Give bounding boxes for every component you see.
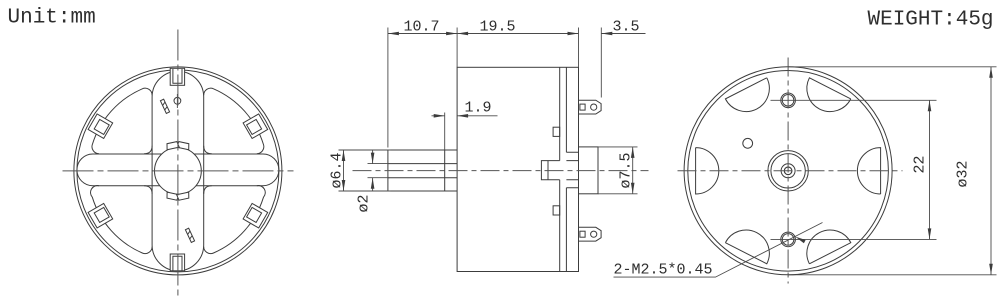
svg-text:10.7: 10.7 bbox=[404, 19, 440, 36]
rear bearing boss cylinder bbox=[579, 147, 599, 194]
clip tab 30 deg bbox=[243, 114, 268, 139]
outer circle dia 32 bbox=[684, 67, 892, 275]
window upper-left bbox=[92, 88, 152, 153]
lobe 297 deg bbox=[807, 230, 851, 264]
window upper-right bbox=[204, 88, 264, 153]
lobe 0 deg bbox=[857, 148, 880, 194]
dim line 10.7 bbox=[388, 33, 457, 35]
top retaining tab bbox=[170, 68, 184, 85]
middle view: side section bbox=[353, 67, 649, 271]
rear plate line 2 bbox=[565, 67, 567, 271]
shaft core diameter 2 lines bbox=[388, 164, 457, 178]
right view horizontal centerline bbox=[678, 170, 903, 172]
svg-text:19.5: 19.5 bbox=[480, 19, 516, 36]
svg-text:1.9: 1.9 bbox=[465, 100, 492, 117]
clip tab 210 deg bbox=[88, 203, 113, 228]
center boss circles bbox=[768, 151, 808, 191]
window lower-left bbox=[91, 186, 153, 254]
window lower-right bbox=[204, 186, 266, 254]
lobe 243 deg bbox=[725, 230, 769, 264]
dim dia 7.5 bbox=[598, 147, 638, 194]
mounting hole top bbox=[781, 93, 796, 108]
lobe 180 deg bbox=[696, 148, 719, 194]
rotor arm horizontal stadium bbox=[77, 154, 279, 186]
right view: rear face bbox=[678, 58, 903, 284]
slanted slot mark lower bbox=[185, 228, 194, 242]
left view horizontal centerline bbox=[63, 170, 294, 172]
dimension dia 32 bbox=[788, 67, 996, 275]
small pilot hole bbox=[743, 138, 753, 148]
svg-text:ø6.4: ø6.4 bbox=[329, 152, 346, 188]
svg-text:2-M2.5*0.45: 2-M2.5*0.45 bbox=[614, 262, 713, 279]
mounting hole bottom bbox=[781, 232, 796, 247]
terminal bottom bbox=[579, 227, 602, 241]
window upper-left corner fillet bbox=[144, 146, 152, 154]
dim line 19.5 bbox=[457, 33, 578, 35]
bottom retaining tab bbox=[170, 254, 184, 271]
center hub circle bbox=[155, 148, 202, 195]
dim 1.9 bbox=[432, 113, 498, 150]
dim dia 6.4 bbox=[339, 150, 391, 191]
svg-text:ø32: ø32 bbox=[955, 160, 972, 187]
clip tab 150 deg bbox=[88, 114, 113, 139]
lobe 63 deg bbox=[807, 78, 851, 112]
left view vertical centerline bbox=[177, 30, 179, 298]
left view: front face of motor bbox=[63, 30, 294, 298]
hub notches bbox=[177, 142, 189, 150]
bearing boss inside bbox=[541, 161, 559, 180]
inner rim circle bbox=[688, 71, 889, 272]
terminal top bbox=[579, 100, 602, 114]
svg-text:ø7.5: ø7.5 bbox=[618, 152, 635, 188]
small square lug upper bbox=[553, 127, 560, 136]
dim line 3.5 bbox=[601, 33, 645, 35]
rotor blade vertical stadium bbox=[152, 71, 204, 271]
middle view centerline bbox=[353, 170, 649, 172]
svg-text:WEIGHT:45g: WEIGHT:45g bbox=[868, 9, 994, 32]
svg-text:3.5: 3.5 bbox=[613, 19, 640, 36]
window lower-right corner fillet bbox=[204, 186, 212, 194]
lobe 117 deg bbox=[725, 78, 769, 112]
dim dia 2 bbox=[368, 150, 390, 191]
window upper-right corner fillet bbox=[204, 146, 212, 154]
clip tab 330 deg bbox=[243, 203, 268, 228]
shaft diameter 6.4 outline bbox=[388, 150, 457, 191]
window lower-left corner fillet bbox=[144, 186, 152, 194]
small pilot hole on blade bbox=[174, 97, 181, 104]
small square lug lower bbox=[553, 206, 560, 215]
dimensions of side view bbox=[329, 19, 646, 213]
right view vertical centerline bbox=[787, 58, 789, 284]
outer circle bbox=[74, 67, 282, 275]
rear plate line 1 bbox=[559, 67, 561, 271]
svg-text:ø2: ø2 bbox=[356, 194, 373, 212]
inner rim circle bbox=[77, 70, 279, 272]
extension lines for top dims bbox=[388, 28, 601, 148]
motor body rectangle bbox=[457, 67, 578, 271]
dimension 22 bbox=[614, 67, 997, 279]
svg-text:Unit:mm: Unit:mm bbox=[8, 7, 96, 30]
slanted slot mark upper bbox=[160, 99, 169, 113]
svg-text:22: 22 bbox=[912, 155, 929, 173]
plate step lines bbox=[566, 152, 578, 188]
